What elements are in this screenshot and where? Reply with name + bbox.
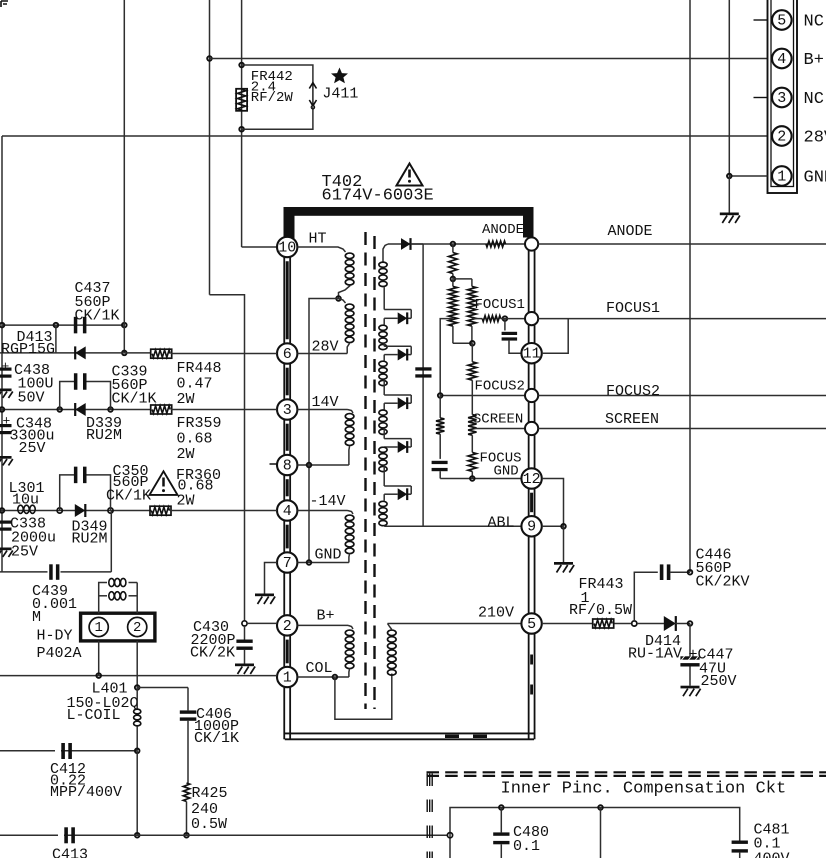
wire connector pin1 to ground xyxy=(729,175,767,177)
node C437 b xyxy=(122,323,127,328)
svg-text:5: 5 xyxy=(527,616,536,633)
node C412 xyxy=(135,749,140,754)
diode D413 xyxy=(75,346,86,359)
wire cap to pin 11 xyxy=(509,341,521,354)
wire R425 to bottom line xyxy=(186,802,188,836)
diode HV stage 5 xyxy=(398,441,408,453)
winding W1 (HT) xyxy=(345,253,354,258)
svg-text:2W: 2W xyxy=(177,446,195,463)
resistor R425 xyxy=(183,783,189,802)
transformer pin 9 (ABL) xyxy=(521,516,541,536)
capacitor C437 xyxy=(74,317,78,334)
svg-text:GND: GND xyxy=(804,169,826,188)
diode HV stage 2 xyxy=(398,312,408,324)
svg-text:CK/1K: CK/1K xyxy=(75,308,120,325)
HV bus vertical xyxy=(422,244,424,526)
wire focus1 left tap xyxy=(440,319,453,396)
capacitor C481 xyxy=(732,841,748,844)
winding HV Wc xyxy=(379,361,387,366)
wire FR360 to pin4 xyxy=(171,510,277,512)
wire pin9 right xyxy=(542,525,564,527)
transformer pin 7 xyxy=(277,552,297,572)
svg-text:4: 4 xyxy=(777,51,786,68)
wire x690 to C447 xyxy=(689,624,691,657)
wire pin2 vertical x137 lower xyxy=(136,751,138,835)
wire C439 line xyxy=(0,571,48,573)
left rail seg 1-bottom xyxy=(283,688,285,740)
svg-text:FOCUS2: FOCUS2 xyxy=(475,379,525,395)
wire HV stage 3 step xyxy=(383,343,385,346)
wire pin10 to winding W1 xyxy=(297,247,345,252)
svg-text:HT: HT xyxy=(309,230,327,247)
core dashed line 1 xyxy=(364,232,366,709)
resistor FR360 (boxed) xyxy=(150,506,171,515)
wire C437 left riser xyxy=(55,325,57,353)
svg-text:C413: C413 xyxy=(52,847,88,859)
resistor FR359 (boxed) xyxy=(151,405,172,414)
wire screen tap xyxy=(475,428,525,430)
pin bump SCREEN xyxy=(525,422,538,435)
diode HV top xyxy=(401,238,411,250)
wire W1 bottom to node xyxy=(339,286,350,299)
svg-text:CK/2KV: CK/2KV xyxy=(696,574,750,591)
wire -14V into W4 xyxy=(348,511,354,515)
capacitor C430 xyxy=(236,640,252,643)
wire FOCUS1 out xyxy=(538,318,826,320)
node FR442 top xyxy=(239,63,244,68)
svg-text:CK/1K: CK/1K xyxy=(106,488,151,505)
wire COL line left xyxy=(0,675,277,677)
svg-text:0.47: 0.47 xyxy=(177,375,213,392)
svg-text:50V: 50V xyxy=(18,389,45,406)
svg-text:SCREEN: SCREEN xyxy=(473,411,523,427)
svg-text:ANODE: ANODE xyxy=(482,222,524,238)
pin bump FOCUS1 xyxy=(525,312,538,325)
stub left of pin 8 xyxy=(270,463,278,465)
svg-text:CK/2K: CK/2K xyxy=(190,645,235,662)
wire branch right xyxy=(453,278,472,280)
node x309 on pin7 wire xyxy=(307,560,312,565)
node gnd junction xyxy=(727,174,732,179)
wire pinc mid drop xyxy=(600,808,602,859)
ground (C447) xyxy=(681,686,700,689)
wire C481 below xyxy=(739,853,741,858)
capacitor C480 xyxy=(493,832,509,835)
svg-text:4: 4 xyxy=(283,503,292,520)
node D413 right xyxy=(122,351,127,356)
wire vertical right (x=690) xyxy=(689,0,691,572)
left rail seg 2-1 xyxy=(283,636,285,668)
wire vertical right (x=729.3) xyxy=(728,0,730,176)
svg-text:CK/1K: CK/1K xyxy=(112,391,157,408)
svg-text:NC: NC xyxy=(804,13,824,32)
svg-text:2: 2 xyxy=(777,128,786,145)
right rail seg 9-5 xyxy=(528,537,530,614)
svg-text:11: 11 xyxy=(523,346,541,363)
wire divider join xyxy=(453,342,472,344)
svg-text:400V: 400V xyxy=(754,850,790,858)
svg-text:-14V: -14V xyxy=(310,493,346,510)
right rail seg 11-focus2 xyxy=(528,363,530,389)
wire focus1 to bump xyxy=(501,318,525,320)
transformer pin 1 xyxy=(277,667,297,687)
node pinc C480 xyxy=(499,805,504,810)
pinc box top dashed edge xyxy=(427,771,826,773)
wire vertical FR442 branch (x=241.6) xyxy=(241,0,243,247)
pin bump FOCUS2 xyxy=(525,389,538,402)
svg-text:0.68: 0.68 xyxy=(177,430,213,447)
capacitor left branch xyxy=(432,461,448,464)
winding W4 (-14V) xyxy=(345,515,354,521)
wire 28V long line to connector pin2 xyxy=(2,135,768,137)
node C446 right xyxy=(688,570,693,575)
wire pin 1 COL xyxy=(297,676,349,678)
transformer top bar right stub xyxy=(523,207,534,238)
wire C437 right riser xyxy=(123,325,125,353)
wire bottom line xyxy=(0,834,447,836)
capacitor C339 xyxy=(74,373,78,390)
wire primary left branch xyxy=(309,299,339,563)
right rail tick marks below pin5 xyxy=(530,655,533,665)
resistor anode series xyxy=(486,241,506,247)
svg-text:2W: 2W xyxy=(177,391,195,408)
node C339 right xyxy=(108,407,113,412)
warning triangle xyxy=(397,164,423,186)
wire FR443 to ring xyxy=(614,623,631,625)
ground (C430) xyxy=(235,664,254,667)
wire C446 to x690 xyxy=(670,571,690,573)
ring C430 junction xyxy=(242,621,247,626)
diode HV stage 3 xyxy=(398,349,408,361)
wire pin 4 -14V xyxy=(297,510,347,512)
node junction B+ line start xyxy=(207,56,212,61)
warning triangle 2 xyxy=(150,471,178,495)
node pin9 gnd xyxy=(561,524,566,529)
svg-text:ABL: ABL xyxy=(488,515,515,532)
svg-text:3: 3 xyxy=(777,90,786,107)
core dashed line 2 xyxy=(373,236,375,709)
svg-text:RGP15G: RGP15G xyxy=(1,341,55,358)
wire pin 3 14V xyxy=(297,409,347,411)
wire HV top lead xyxy=(383,244,388,262)
wire to ground xyxy=(563,526,565,562)
right rail seg anode-focus1 xyxy=(528,250,530,312)
wire D413 line xyxy=(0,352,152,354)
wire HV stage 3 anode drop xyxy=(383,355,385,361)
connector pin 3 xyxy=(772,88,792,108)
svg-text:RU-1AV: RU-1AV xyxy=(628,645,682,662)
wire HV stage 6 step xyxy=(383,465,385,486)
right rail seg focus1-11 xyxy=(528,325,530,343)
node x309 on pin8 wire xyxy=(307,463,312,468)
wire focus gnd line xyxy=(440,478,521,480)
capacitor C446 xyxy=(660,564,664,580)
svg-text:GND: GND xyxy=(315,547,342,564)
inductor L301 xyxy=(18,505,23,513)
svg-text:RF/0.5W: RF/0.5W xyxy=(569,602,632,619)
wire HV stage 2 step xyxy=(383,287,385,309)
node primary junction xyxy=(336,296,341,301)
wire FR448 to pin6 xyxy=(171,353,277,355)
yoke coil 1 xyxy=(109,578,114,586)
ring pinc xyxy=(447,833,452,838)
wire C480 below xyxy=(500,844,502,858)
svg-text:B+: B+ xyxy=(317,608,335,625)
wire C446 branch xyxy=(634,572,658,621)
ground (pin7) xyxy=(255,594,274,597)
left rail seg 8-4 xyxy=(283,475,285,500)
wire FOCUS2 out xyxy=(538,395,826,397)
wire HV stage 6 anode drop xyxy=(383,494,385,501)
svg-text:10u: 10u xyxy=(12,491,39,508)
diode HV stage 4 xyxy=(398,397,408,409)
node focus1 xyxy=(503,316,508,321)
svg-text:CK/1K: CK/1K xyxy=(194,730,239,747)
node divider xyxy=(451,277,456,282)
wire to pin 2 xyxy=(247,622,277,624)
wire W6 top to 210V line xyxy=(388,624,392,630)
wire W5 bottom to COL wire xyxy=(348,669,351,678)
svg-text:28V: 28V xyxy=(804,129,826,148)
transformer pin 11 xyxy=(521,343,541,363)
wire C406 to R425 xyxy=(187,726,189,783)
wire pin 7 GND xyxy=(297,562,349,564)
transformer top bar (thick) xyxy=(284,207,534,216)
node 14V left xyxy=(0,407,4,412)
diode HV stage 6 xyxy=(398,488,408,500)
svg-text:3: 3 xyxy=(283,402,292,419)
left rail seg 10-6 xyxy=(283,257,285,343)
svg-text:1: 1 xyxy=(777,168,786,185)
diode D414 xyxy=(664,616,676,631)
svg-text:P402A: P402A xyxy=(37,645,82,662)
wire C430 to gnd xyxy=(244,650,246,664)
wire FR442 branch to pin10 xyxy=(242,246,277,248)
resistor FR442 (boxed) xyxy=(236,89,247,111)
wire FR359 to pin3 xyxy=(171,409,277,411)
left rail seg 7-2 xyxy=(283,573,285,615)
svg-text:8: 8 xyxy=(283,457,292,474)
winding W3 (14V) xyxy=(345,414,354,420)
winding HV Wd xyxy=(379,410,387,415)
pinc box left dashed edge xyxy=(426,774,428,859)
svg-text:M: M xyxy=(32,609,41,626)
star mark xyxy=(331,68,348,84)
svg-text:2: 2 xyxy=(283,618,292,635)
winding HV Wa xyxy=(379,262,387,267)
right rail seg screen-12 xyxy=(528,435,530,468)
svg-text:12: 12 xyxy=(523,471,541,488)
wire W2 bottom to pin6 wire xyxy=(347,343,349,353)
wire B+ feed elbow xyxy=(210,295,245,621)
transformer bottom rail xyxy=(285,732,534,734)
connector pin 5 xyxy=(772,10,792,30)
svg-text:L-COIL: L-COIL xyxy=(67,707,121,724)
wire D414 to x690 xyxy=(675,623,690,625)
yoke loop wires xyxy=(99,583,107,614)
wire 14V wire into W3 xyxy=(348,410,354,414)
svg-text:+: + xyxy=(2,359,10,374)
ground (pin9/12) xyxy=(554,562,573,565)
yoke coil 2 xyxy=(109,592,114,600)
wire node to 28V winding xyxy=(339,299,346,304)
node -14V left xyxy=(0,508,4,513)
H-DY pin 2 circle xyxy=(128,617,147,636)
resistor divider mid xyxy=(471,343,473,362)
inductor L401 xyxy=(136,688,138,709)
transformer pin 10 xyxy=(277,237,297,257)
node R425 bottom xyxy=(184,833,189,838)
winding W5 (B+/COL) xyxy=(345,630,354,636)
svg-text:Inner Pinc. Compensation Ckt: Inner Pinc. Compensation Ckt xyxy=(501,780,787,799)
diode D339 xyxy=(75,403,86,416)
wire B+ line to connector pin4 xyxy=(210,58,768,60)
wire C437 line xyxy=(2,324,124,326)
wire pin7 to ground xyxy=(265,563,278,594)
wire B+ into W5 xyxy=(348,625,353,629)
svg-text:25V: 25V xyxy=(19,440,46,457)
wire C480 drop xyxy=(500,808,502,833)
node D414 out xyxy=(688,621,693,626)
ring D414 anode xyxy=(632,621,637,626)
capacitor C338 (edge) xyxy=(0,521,12,524)
wire ABL line xyxy=(384,525,521,527)
transformer pin 5 (210V) xyxy=(521,613,541,633)
resistor FR443 (boxed) xyxy=(593,619,614,628)
wire J411 loop xyxy=(242,65,313,84)
wire C447 to gnd xyxy=(689,667,691,686)
svg-text:10: 10 xyxy=(278,239,296,256)
wire SCREEN out xyxy=(538,428,826,430)
svg-text:COL: COL xyxy=(306,660,333,677)
wire HV stage 5 step xyxy=(383,428,385,439)
svg-text:GND: GND xyxy=(494,464,519,480)
node C437 left xyxy=(0,323,4,328)
svg-text:SCREEN: SCREEN xyxy=(605,411,659,428)
wire pin11 right riser xyxy=(542,319,568,354)
wire pin12 right xyxy=(542,479,564,527)
svg-text:5: 5 xyxy=(777,12,786,29)
wire H-DY pin2 down xyxy=(136,641,138,688)
capacitor HV bus xyxy=(415,367,431,370)
svg-text:6: 6 xyxy=(283,346,292,363)
diode D349 xyxy=(75,504,86,517)
node focus gnd xyxy=(470,476,475,481)
transformer pin 6 xyxy=(277,343,297,363)
winding HV We xyxy=(379,447,387,452)
wire HV stage 5 anode drop xyxy=(383,446,385,448)
svg-text:RU2M: RU2M xyxy=(72,531,108,548)
node C437 a xyxy=(54,323,59,328)
wire ANODE out xyxy=(538,243,826,245)
node COL junction xyxy=(333,675,338,680)
winding W2 (28V) xyxy=(345,304,354,310)
svg-text:9: 9 xyxy=(527,519,536,536)
wire pin 2 B+ xyxy=(297,624,348,626)
transformer pin 3 xyxy=(277,399,297,419)
wire C350 loop xyxy=(60,475,76,511)
wire C412 line xyxy=(0,750,137,752)
capacitor C447 (hatched) xyxy=(680,656,699,659)
svg-text:NC: NC xyxy=(804,90,824,109)
svg-text:7: 7 xyxy=(283,555,292,572)
svg-text:ANODE: ANODE xyxy=(608,223,653,240)
resistor divider left long xyxy=(452,279,454,287)
wire C430 drop xyxy=(244,626,246,640)
node bottom x137 xyxy=(135,833,140,838)
wire pin 8 xyxy=(297,464,349,466)
transformer top bar left stub xyxy=(284,207,295,241)
capacitor C413 xyxy=(64,827,68,843)
svg-text:2: 2 xyxy=(133,620,141,636)
wire 14V line left xyxy=(0,409,152,411)
ring C350 left xyxy=(57,508,62,513)
connector pin 1 xyxy=(772,166,792,186)
svg-text:28V: 28V xyxy=(312,339,339,356)
wire pin 6 28V xyxy=(297,353,347,355)
wire HV stage 4 step xyxy=(383,379,385,395)
wire vertical B+ feed upper (x=209.5) xyxy=(209,0,211,295)
bottom rail tick marks xyxy=(445,735,459,738)
connector housing (top right) xyxy=(768,0,798,193)
node C339 left xyxy=(57,407,62,412)
left rail seg 6-3 xyxy=(283,364,285,400)
transformer pin 12 xyxy=(521,468,541,488)
left rail seg 3-8 xyxy=(283,420,285,455)
wire pin5 to FR443 xyxy=(542,623,592,625)
svg-text:0.1: 0.1 xyxy=(513,838,540,855)
svg-text:1: 1 xyxy=(283,669,292,686)
wire L401 top branch xyxy=(137,687,188,689)
wire W4 bottom to pin7 wire xyxy=(348,554,351,563)
node anode divider top xyxy=(451,242,456,247)
transformer pin 4 xyxy=(277,500,297,520)
wire HV stage 4 anode drop xyxy=(383,403,385,409)
svg-text:H-DY: H-DY xyxy=(37,628,73,645)
jumper J411 arrows xyxy=(309,83,316,89)
svg-text:0.5W: 0.5W xyxy=(191,816,227,833)
resistor left branch (focus2) xyxy=(439,396,441,418)
left rail seg 4-7 xyxy=(283,521,285,553)
node COL/H-DY xyxy=(96,673,101,678)
capacitor C350 xyxy=(74,467,78,484)
capacitor C412 xyxy=(61,743,65,759)
svg-text:FR359: FR359 xyxy=(177,415,222,432)
wire focus1 tap xyxy=(472,318,482,320)
node focus2 left xyxy=(438,393,443,398)
connector pin 2 xyxy=(772,126,792,146)
svg-text:25V: 25V xyxy=(11,544,38,561)
wire W3 bottom to pin8 wire xyxy=(348,446,351,465)
svg-text:1: 1 xyxy=(94,620,102,636)
right rail seg 5-bottom xyxy=(528,634,530,740)
H-DY pin 1 circle xyxy=(89,617,108,636)
cut-off text fragment top-left corner xyxy=(1,1,8,7)
resistor divider focus gnd xyxy=(468,452,476,471)
capacitor C406 xyxy=(180,710,197,713)
resistor FR448 (boxed) xyxy=(151,349,172,358)
wire H-DY pin1 down xyxy=(98,641,100,676)
node FR442 bottom xyxy=(239,127,244,132)
svg-text:6174V-6003E: 6174V-6003E xyxy=(322,187,434,206)
wire focus2 line xyxy=(440,395,525,397)
H-DY connector box xyxy=(81,613,155,641)
transformer pin 2 xyxy=(277,615,297,635)
svg-text:RF/2W: RF/2W xyxy=(251,90,294,106)
node divider join xyxy=(470,341,475,346)
svg-text:RU2M: RU2M xyxy=(86,427,122,444)
wire C439 right riser xyxy=(110,511,112,572)
